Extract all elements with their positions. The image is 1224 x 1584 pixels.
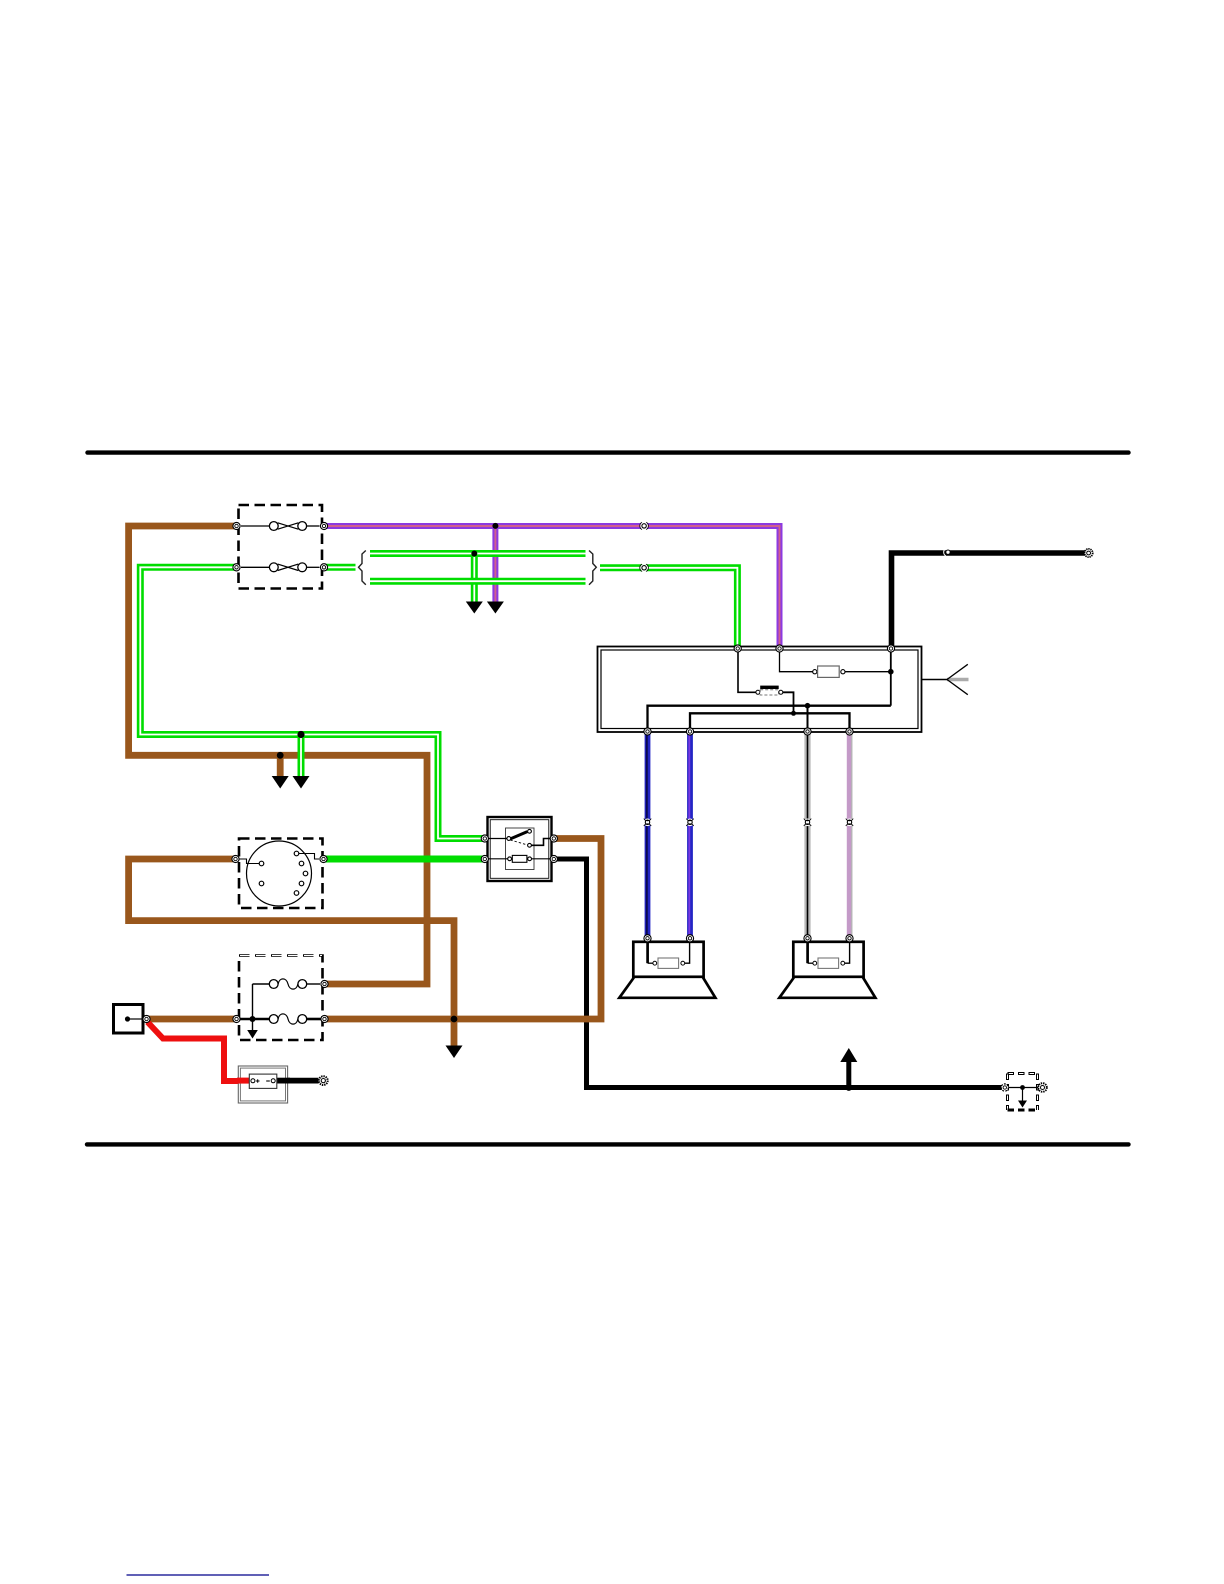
footer link line xyxy=(127,1574,270,1575)
brace left { xyxy=(359,551,366,585)
junction: brown at fuse2 output run xyxy=(451,1016,458,1023)
inline connector: black memory wire xyxy=(944,549,951,556)
wire: green/white tap arrow at x=301 xyxy=(293,731,310,789)
battery xyxy=(237,1066,290,1103)
internal tap with arrow xyxy=(252,984,254,1031)
arrow: brown loop continuation (down) xyxy=(446,1046,463,1059)
terminal rings: speaker tops xyxy=(644,935,853,942)
wire: gray/black right front speaker xyxy=(804,732,810,939)
terminal ring: battery junction box xyxy=(143,1015,150,1022)
switch inside relay xyxy=(510,832,528,840)
wire: black ground run (relay to right connector) xyxy=(554,859,1005,1088)
fusible link F2-B xyxy=(240,1018,269,1021)
battery junction box xyxy=(114,1005,144,1034)
wire: green solid ignition to relay xyxy=(323,856,485,863)
right front speaker xyxy=(779,938,875,998)
wire: black radio memory feed (top right) xyxy=(892,553,1087,649)
top rule xyxy=(88,450,1129,454)
terminal rings: relay xyxy=(481,835,557,863)
internal: output bus upper xyxy=(648,706,891,732)
internal: choke row xyxy=(738,649,756,693)
ground arrow (up) on black run xyxy=(840,1048,857,1088)
wire: brown tap with arrow at x=280 xyxy=(272,752,289,789)
terminal rings: fuse box F2 xyxy=(233,980,328,1022)
wire: brown feed (fuse1 to junction loop to fuse2 top) xyxy=(129,526,427,984)
internal: B+ resistor row xyxy=(780,649,813,672)
terminal rings: radio bottom xyxy=(644,728,853,735)
wire: blue/violet left front speaker return xyxy=(686,732,693,939)
wire: purple/red tap with arrow xyxy=(487,523,504,614)
radio box xyxy=(598,647,922,733)
ignition switch (dashed box) xyxy=(239,839,323,909)
terminal ring: black memory feed eyelet xyxy=(1085,549,1093,557)
terminal ring: battery negative eyelet xyxy=(319,1076,328,1085)
bottom rule xyxy=(87,1142,1129,1146)
brace right } xyxy=(589,551,596,585)
wire: violet right front speaker return xyxy=(850,732,852,939)
junction + arrow of green tap at x=474 xyxy=(466,551,483,614)
ground connector box (dashed, bottom right) xyxy=(1005,1074,1041,1111)
relay / noise suppressor box xyxy=(488,817,552,881)
inline connectors: speaker wires xyxy=(644,819,854,827)
fuse F1-B (radio switched) xyxy=(241,563,320,572)
junction on black run xyxy=(845,1084,852,1091)
antenna symbol xyxy=(922,664,969,694)
wire: green/white merged to radio xyxy=(600,568,737,649)
fuse box F2 (dashed) xyxy=(239,956,323,1041)
wire: blue/black left front speaker xyxy=(644,732,651,939)
terminal rings: ignition switch xyxy=(232,855,327,862)
wire: brown fuse2 to relay xyxy=(323,839,601,1020)
wire: green/white braced pair bottom xyxy=(370,578,586,585)
wire: green/white main loop (fuse1 to relay) xyxy=(140,567,485,838)
terminal rings: radio top xyxy=(734,645,895,652)
wire: black battery negative stub xyxy=(277,1078,319,1084)
wire: green/white stub fuse1 right xyxy=(323,564,356,571)
wire: purple/red radio battery feed xyxy=(323,526,780,649)
wire: brown ignition switch loop xyxy=(129,859,454,1046)
wire: brown battery junction to fuse2 xyxy=(146,1016,237,1023)
wire: red battery positive xyxy=(148,1022,251,1081)
inline connector: green merged wire xyxy=(640,564,649,572)
resistor inside relay xyxy=(488,858,508,860)
wire: green/white tap at x=474 xyxy=(471,554,478,602)
fuse F1-A (radio batt) xyxy=(241,522,320,531)
fuse box F1 (dashed) xyxy=(239,505,323,589)
terminal rings: ground connector box xyxy=(1001,1083,1047,1092)
wire: green/white braced pair top xyxy=(370,550,586,557)
fusible link F2-A xyxy=(253,983,270,985)
left front speaker xyxy=(619,938,715,998)
terminal rings: fuse box F1 xyxy=(233,522,328,571)
internal: output bus lower xyxy=(690,713,850,731)
inline connector: purple wire xyxy=(640,522,649,530)
